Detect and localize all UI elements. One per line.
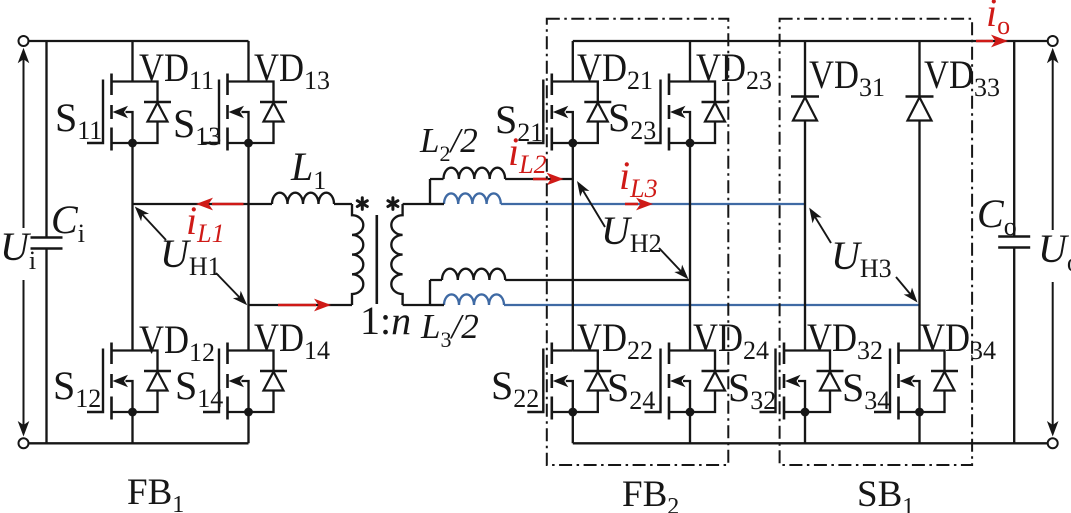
label VD22	[577, 315, 653, 365]
label S32	[728, 365, 776, 415]
wire split to blue coil bottom	[430, 304, 444, 306]
body diode VD22	[573, 351, 612, 413]
label VD33	[924, 52, 1000, 102]
wire secondary bottom to split	[403, 280, 442, 305]
wire bottom rail FB1	[29, 442, 249, 444]
voltage arrow Ui	[18, 48, 30, 437]
inductor L3/2 upper	[442, 269, 505, 280]
boundary box FB2	[547, 19, 729, 465]
current arrow iL2	[533, 173, 564, 186]
voltage arrow Uo	[1047, 48, 1059, 437]
transistor S12	[87, 343, 137, 420]
wire top rail output	[573, 40, 1048, 42]
wire SB1 right leg	[918, 41, 920, 443]
label Co	[977, 191, 1017, 241]
wire Ci branch	[45, 41, 47, 443]
wire FB2 right leg	[689, 41, 691, 443]
label UH2	[601, 208, 662, 258]
annotation arrow UH3 to SB1 left	[809, 208, 831, 243]
wire split to blue coil top	[430, 203, 444, 205]
svg-text:Uo: Uo	[1038, 226, 1071, 277]
body diode VD13	[249, 82, 288, 144]
label Uo	[1036, 226, 1071, 282]
label turns ratio 1:n	[360, 298, 411, 343]
transistor S23	[645, 74, 695, 151]
transistor S34	[874, 343, 924, 420]
label S12	[53, 363, 101, 413]
output terminal bottom	[1048, 438, 1058, 448]
label VD13	[254, 45, 330, 95]
transistor S13	[203, 74, 253, 151]
transistor S24	[645, 343, 695, 420]
wire FB2 left leg	[572, 41, 574, 443]
inductor blue lower	[444, 294, 504, 305]
wire FB1 left leg	[131, 41, 133, 443]
label S13	[173, 101, 221, 151]
inductor L1	[272, 193, 334, 204]
boundary box SB1	[780, 19, 973, 465]
label VD24	[693, 315, 769, 365]
label iL1	[186, 198, 225, 248]
body diode VD32	[805, 351, 844, 413]
wire SB1 left leg	[804, 41, 806, 443]
label L1	[290, 144, 326, 195]
input terminal top	[19, 36, 29, 46]
current arrow iL3	[625, 198, 653, 211]
wire node B to transformer	[249, 304, 353, 306]
dot mark secondary	[388, 198, 398, 210]
wire Co branch	[1013, 41, 1015, 443]
label L3/2	[420, 307, 479, 352]
inductor L2/2 upper	[444, 168, 506, 179]
diode VD33	[906, 97, 934, 121]
wire FB1 right leg	[247, 41, 249, 443]
transistor S21	[527, 74, 577, 151]
annotation arrow UH2 to FB2 left	[577, 181, 605, 227]
label S14	[175, 363, 223, 413]
current arrow primary bottom	[278, 299, 331, 312]
label VD21	[577, 45, 653, 95]
label L2/2	[419, 121, 478, 166]
label VD14	[254, 315, 330, 365]
annotation arrow UH3 to SB1 right	[896, 277, 918, 303]
label Ci	[51, 197, 85, 248]
label FB1	[127, 472, 184, 513]
label S24	[607, 365, 655, 415]
label Ui	[0, 224, 36, 280]
diode VD31	[791, 97, 819, 121]
wire bottom rail output	[573, 442, 1048, 444]
transistor S32	[760, 343, 810, 420]
transformer core	[375, 215, 378, 304]
wire blue bottom to SB1	[504, 304, 920, 306]
label iL2	[508, 129, 547, 179]
body diode VD12	[133, 351, 172, 413]
label VD32	[807, 315, 883, 365]
current arrow io	[976, 35, 1008, 48]
wire secondary top to split	[403, 179, 444, 204]
annotation arrow UH1 to node A	[135, 207, 166, 241]
capacitor Ci	[31, 238, 63, 249]
body diode VD24	[690, 351, 729, 413]
body diode VD11	[133, 82, 172, 144]
dot mark primary	[357, 198, 367, 210]
transformer secondary winding	[391, 204, 402, 305]
label S23	[608, 95, 656, 145]
wire node A to L1	[133, 203, 273, 205]
body diode VD21	[573, 82, 612, 144]
label VD34	[920, 315, 996, 365]
input terminal bottom	[19, 438, 29, 448]
wire L3/2 to FB2	[505, 279, 690, 281]
inductor blue upper	[444, 193, 501, 204]
wire blue top to SB1	[501, 203, 805, 205]
body diode VD34	[920, 351, 959, 413]
label io	[986, 0, 1010, 40]
label VD23	[696, 45, 772, 95]
annotation arrow UH1 to node B	[216, 273, 247, 305]
transistor S14	[203, 343, 253, 420]
transformer primary winding	[352, 204, 363, 305]
label VD11	[139, 45, 214, 95]
output terminal top	[1048, 36, 1058, 46]
wire L1 to transformer	[334, 203, 352, 205]
capacitor Co	[998, 237, 1030, 248]
label iL3	[619, 153, 658, 203]
label S21	[495, 97, 543, 147]
label VD12	[139, 317, 215, 367]
label SB1	[857, 474, 914, 513]
label S34	[842, 365, 890, 415]
annotation arrow UH2 to FB2 right	[659, 248, 689, 279]
label FB2	[622, 474, 679, 513]
current arrow iL1	[196, 198, 244, 211]
label UH3	[831, 233, 892, 283]
body diode VD23	[690, 82, 729, 144]
wire L2/2 to FB2	[505, 178, 573, 180]
transistor S11	[87, 74, 137, 151]
body diode VD14	[249, 351, 288, 413]
label S22	[491, 363, 539, 413]
transistor S22	[527, 343, 577, 420]
label S11	[55, 95, 102, 145]
wire top rail FB1	[29, 40, 249, 42]
label UH1	[160, 231, 221, 281]
label VD31	[809, 52, 885, 102]
